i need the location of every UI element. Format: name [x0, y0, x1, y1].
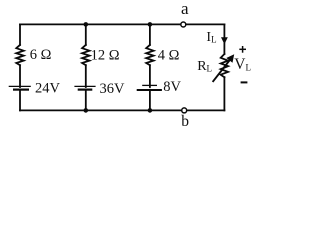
node b terminal circle	[182, 108, 187, 113]
wire: right branch upper segment	[223, 24, 225, 54]
wire: branch 3 lower segment	[149, 90, 151, 111]
svg-text:RL: RL	[197, 59, 212, 74]
battery E1 24V negative plate	[13, 88, 29, 90]
wire: left branch lower segment	[19, 90, 21, 111]
svg-text:IL: IL	[206, 30, 216, 45]
variable resistor arrow shaft	[213, 60, 230, 82]
resistor R2 12 ohm zigzag	[82, 45, 89, 65]
svg-text:24V: 24V	[35, 80, 61, 96]
battery E2 36V negative plate	[78, 88, 93, 90]
wire: top bus (node a rail)	[20, 23, 224, 25]
wire: branch 2 lower segment	[85, 90, 87, 111]
junction: branch 2 top	[84, 22, 89, 27]
svg-text:8V: 8V	[163, 79, 181, 95]
wire: branch 3 middle segment	[149, 65, 151, 87]
wire: bottom bus (node b rail)	[20, 109, 224, 111]
svg-text:b: b	[181, 113, 189, 130]
battery E3 8V positive plate (long bottom)	[137, 89, 162, 91]
svg-text:12 Ω: 12 Ω	[91, 47, 120, 63]
battery E2 36V positive plate	[74, 85, 95, 87]
wire: left branch upper segment	[19, 24, 21, 45]
resistor R3 4 ohm zigzag	[146, 45, 153, 65]
junction: branch 3 top	[148, 22, 153, 27]
resistor R1 6 ohm zigzag	[16, 45, 23, 65]
battery E1 24V positive plate	[9, 85, 31, 87]
wire: right branch lower segment	[223, 77, 225, 110]
label: plus sign	[239, 46, 246, 53]
svg-text:4 Ω: 4 Ω	[158, 47, 180, 63]
svg-text:6 Ω: 6 Ω	[30, 47, 52, 63]
current IL arrowhead	[221, 37, 228, 44]
label: minus sign	[241, 81, 248, 83]
wire: branch 2 middle segment	[85, 65, 87, 87]
wire: branch 2 upper segment	[85, 24, 87, 45]
svg-text:VL: VL	[234, 56, 251, 73]
node a terminal circle	[181, 22, 186, 27]
resistor RL zigzag	[221, 54, 228, 77]
junction: branch 2 bottom	[84, 108, 89, 113]
variable resistor arrowhead	[226, 54, 234, 62]
svg-text:36V: 36V	[100, 81, 126, 97]
wire: left branch middle segment	[19, 65, 21, 87]
battery E3 8V negative plate (reversed, short on top)	[142, 84, 157, 86]
wire: branch 3 upper segment	[149, 24, 151, 45]
svg-text:a: a	[181, 0, 189, 18]
junction: branch 3 bottom	[148, 108, 153, 113]
